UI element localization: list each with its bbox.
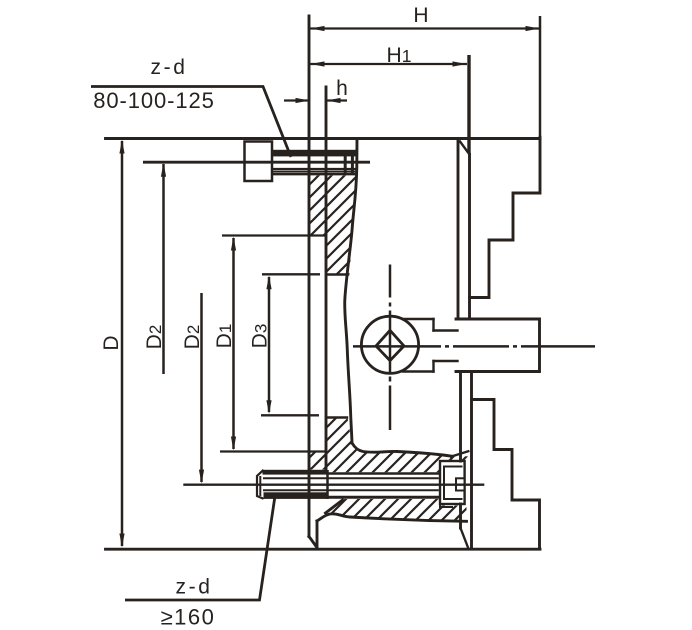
svg-text:D: D <box>100 335 123 350</box>
svg-text:D2: D2 <box>181 325 204 350</box>
svg-text:≥160: ≥160 <box>161 605 216 630</box>
svg-text:D3: D3 <box>249 324 272 349</box>
svg-text:H: H <box>413 4 428 27</box>
svg-text:z-d: z-d <box>176 576 213 599</box>
svg-text:D2: D2 <box>143 325 166 350</box>
svg-text:h: h <box>336 77 348 100</box>
svg-text:H1: H1 <box>387 44 412 67</box>
svg-text:D1: D1 <box>213 324 236 349</box>
svg-text:z-d: z-d <box>151 56 188 79</box>
svg-text:80-100-125: 80-100-125 <box>93 88 215 113</box>
